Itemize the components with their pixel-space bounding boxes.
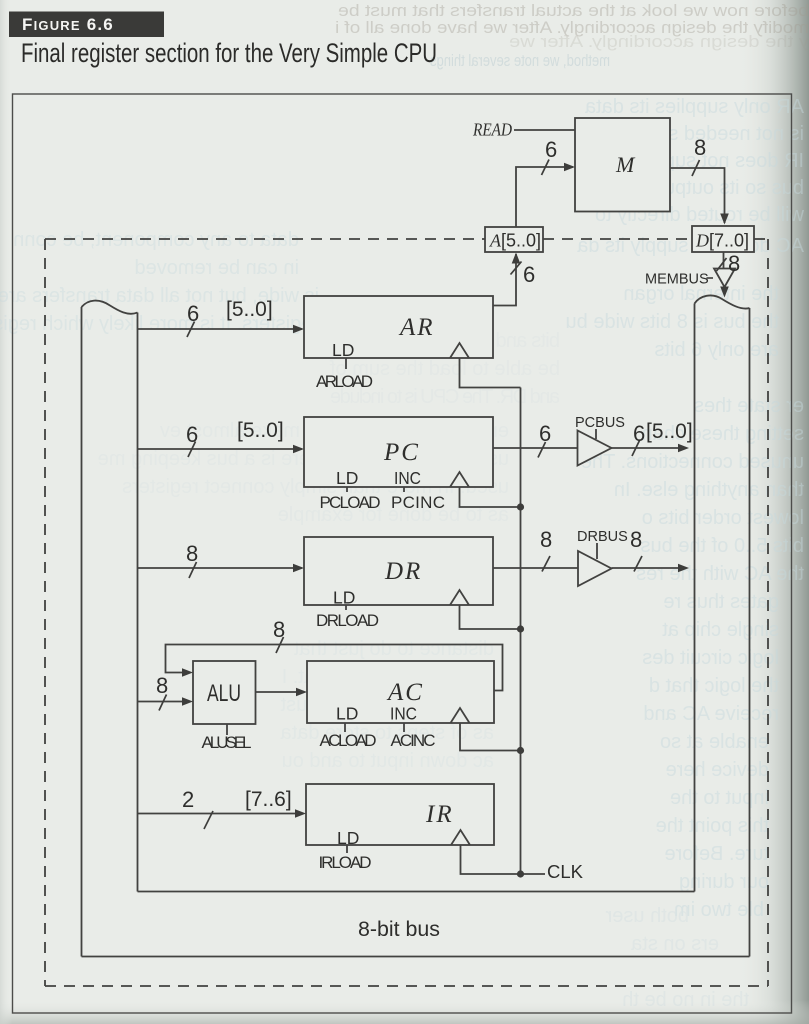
svg-text:the in no be th: the in no be th [622,989,749,1011]
svg-text:the bus is 8 bits wide bu: the bus is 8 bits wide bu [566,311,779,333]
svg-text:PCLOAD: PCLOAD [320,493,381,512]
svg-text:method, we note several things: method, we note several things [430,51,610,70]
svg-text:FIGURE 6.6: FIGURE 6.6 [22,15,114,34]
wire DR to DRBUS [493,567,578,569]
svg-text:[5..0]: [5..0] [237,419,284,442]
wire PCBUS to bus [612,447,687,449]
tick PCBUS [595,429,597,439]
node AC clock [517,747,524,754]
wire AC feedback to ALU [166,645,503,691]
node PC clock [517,503,524,510]
svg-text:8: 8 [156,673,168,698]
svg-text:are only 6 bits: are only 6 bits [654,339,779,361]
component name labels (italic serif) [383,120,636,829]
slash DR input [189,562,197,578]
clock wedge IR [451,830,470,845]
svg-text:IRLOAD: IRLOAD [319,853,372,872]
arrow into M [564,163,575,172]
svg-text:D[7..0]: D[7..0] [695,231,749,251]
slash AR input [187,322,195,338]
arrow MEMBUS to bus [720,287,729,298]
clock wedge DR [450,590,469,605]
svg-text:lowest order bits o: lowest order bits o [642,507,804,529]
svg-text:LD: LD [336,468,358,488]
svg-text:6: 6 [633,421,645,446]
wire AC clock [460,723,521,751]
buffer PCBUS [578,431,612,466]
tick ARLOAD [345,358,347,369]
svg-text:ac down input to and ou: ac down input to and ou [282,750,494,772]
wire CLK label lead [521,873,546,875]
svg-text:the logic that d: the logic that d [649,675,779,697]
wire PC to PCBUS [493,447,578,449]
alu ALU [193,661,256,724]
svg-text:READ: READ [472,120,512,140]
svg-text:gates thus re: gates thus re [663,591,779,613]
svg-text:unused connections. The: unused connections. The [581,451,804,473]
wire A to M [516,167,573,227]
svg-text:y the design accordingly. Afte: y the design accordingly. After we [509,32,809,51]
svg-text:CLK: CLK [547,861,584,882]
buffer and misc labels [358,272,713,942]
slash AR to A [511,262,522,275]
svg-text:MEMBUS: MEMBUS [645,272,709,288]
svg-text:8: 8 [728,251,740,276]
memory M [575,118,670,212]
figure header black box [9,12,164,38]
svg-text:DRLOAD: DRLOAD [316,611,379,630]
bus: left ribbon [82,301,138,957]
tick PCINC [403,487,405,492]
svg-text:PCBUS: PCBUS [575,415,625,431]
wire buffer to bus [724,287,726,292]
wire DRBUS to bus [612,567,687,569]
arrow into AR [293,325,304,334]
register IR [306,784,494,845]
svg-text:8: 8 [630,527,642,552]
svg-text:data to any component, be conn: data to any component, be conn [13,229,299,251]
svg-text:AR: AR [398,314,435,341]
svg-text:6: 6 [186,422,198,447]
svg-text:6: 6 [539,421,551,446]
bus: bottom [82,892,750,957]
svg-text:ALU: ALU [207,680,241,707]
port D[7..0] [692,226,754,252]
tick MEMBUS [707,277,714,279]
svg-text:A[5..0]: A[5..0] [489,231,541,251]
junction dots [517,503,524,877]
wire AR clock [460,358,521,388]
svg-text:8: 8 [694,135,706,160]
port labels [489,231,749,251]
CPU boundary dashed box [45,239,768,986]
arrow into D [720,214,729,225]
arrow into ALU upper [182,668,193,677]
svg-text:8: 8 [540,527,552,552]
slash IR input [204,811,213,829]
buffer DRBUS [578,551,612,586]
svg-text:input to the: input to the [670,787,769,809]
buffer MEMBUS [714,269,735,288]
svg-text:8-bit bus: 8-bit bus [358,918,440,941]
register AR [304,296,493,358]
wire bus to PC [138,448,303,450]
svg-text:Final register section for the: Final register section for the Very Simp… [21,38,437,68]
arrow into DR [293,564,304,573]
wire bus to IR [138,813,304,815]
slash M to D [692,160,700,176]
register AC [307,661,494,723]
svg-text:DRBUS: DRBUS [577,529,628,545]
bus width number labels [156,135,740,812]
svg-text:6: 6 [523,262,535,287]
slash AC feedback [276,637,284,653]
svg-text:our during: our during [679,871,769,893]
svg-text:[5..0]: [5..0] [646,420,693,443]
svg-text:distance to do just that: distance to do just that [293,638,494,660]
svg-text:INC: INC [394,468,421,488]
arrow into ALU lower [182,697,193,706]
tick PCLOAD [346,487,348,492]
svg-text:single chip at: single chip at [662,619,779,641]
arrow into IR [295,809,306,818]
tick ACINC [403,723,405,732]
svg-text:device here: device here [666,759,769,781]
arrow into PC [293,445,304,454]
svg-text:8: 8 [186,541,198,566]
svg-text:LD: LD [332,340,354,360]
port A[5..0] [485,227,543,252]
clock wedge AR [450,343,469,358]
svg-text:PCINC: PCINC [391,493,445,512]
wire D to MEMBUS buffer [723,252,725,269]
svg-text:this point the: this point the [656,815,769,837]
wire READ to M [514,129,575,131]
control labels inside boxes [207,340,421,848]
slash DR out [542,556,550,572]
tick ACLOAD [344,723,346,732]
arrowheads [182,163,729,818]
arrow into A [512,253,521,264]
svg-text:as of steps to store data: as of steps to store data [280,722,494,744]
wire DR clock [460,605,521,629]
tick DRBUS [596,543,598,559]
bus: right ribbon [695,295,750,956]
svg-text:LD: LD [336,704,358,724]
node IR clock [517,870,524,877]
svg-text:LD: LD [337,828,359,848]
svg-text:ALUSEL: ALUSEL [202,733,252,752]
control signal labels under boxes [202,372,446,872]
svg-text:the AC with the res: the AC with the res [636,563,804,585]
svg-text:ers on sta: ers on sta [630,933,719,955]
svg-text:logic circuit des: logic circuit des [642,647,779,669]
svg-text:6: 6 [545,137,557,162]
slash PC out [538,442,546,458]
svg-text:enable at so: enable at so [660,731,769,753]
tick ALUSEL [226,724,228,735]
svg-text:AR only supplies its data: AR only supplies its data [584,96,804,118]
register DR [304,537,493,605]
svg-text:PC: PC [383,439,420,466]
node DR clock [517,625,524,632]
svg-text:DR: DR [384,558,422,585]
wire CLK line [520,388,522,875]
slash PCBUS out [632,441,640,457]
svg-text:ture. Before: ture. Before [664,843,769,865]
slash A to M [542,160,550,176]
svg-text:in can be removed: in can be removed [134,257,299,279]
slash PC input [188,442,196,458]
svg-text:INC: INC [390,704,417,724]
clock wedge PC [450,472,469,487]
svg-text:than anything else. In: than anything else. In [614,479,804,501]
svg-text:8: 8 [273,617,285,642]
svg-text:6: 6 [187,301,199,326]
arrow DRBUS out [678,564,689,573]
svg-text:ACINC: ACINC [391,731,436,750]
slash D to MEMBUS [717,258,727,271]
svg-text:ACLOAD: ACLOAD [320,731,377,750]
slash DRBUS out [634,556,642,572]
svg-text:[5..0]: [5..0] [226,298,273,321]
svg-text:2: 2 [182,787,194,812]
wire M to D [670,168,725,223]
svg-text:receive AC and: receive AC and [643,703,779,725]
register PC [304,417,493,487]
svg-text:IR: IR [425,801,454,828]
svg-text:[7..6]: [7..6] [245,788,292,811]
wire AR to A [493,254,516,306]
slash marks [159,160,727,830]
wire bus to ALU [138,701,191,703]
svg-text:LD: LD [333,588,355,608]
slash ALU lower [159,695,167,711]
arrow PCBUS out [678,444,689,453]
wire IR clock [461,845,521,874]
clock wedge AC [451,708,470,723]
arrow into AC [296,688,307,697]
svg-text:both user: both user [605,905,689,927]
svg-text:M: M [615,152,636,177]
wire PC clock [460,487,521,507]
svg-text:AC: AC [386,679,424,706]
svg-text:bits 5..0 of the bus: bits 5..0 of the bus [641,535,804,557]
wire bus to DR [138,567,303,569]
wire ALU to AC [256,691,305,693]
tick DRLOAD [345,605,347,610]
tick IRLOAD [346,845,348,853]
wire bus to AR [138,328,303,330]
svg-text:ARLOAD: ARLOAD [316,372,373,391]
